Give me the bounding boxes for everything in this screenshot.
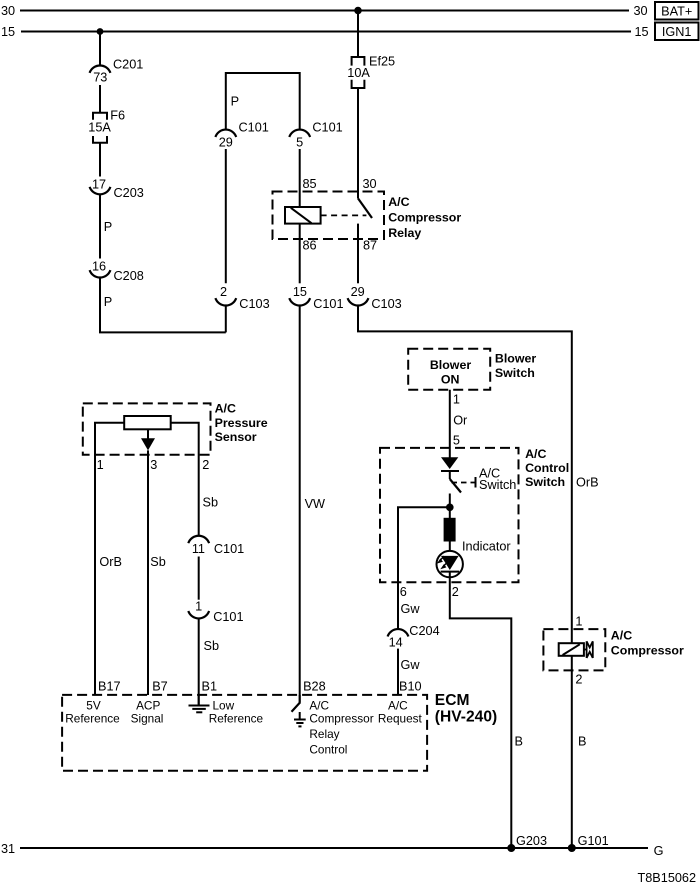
svg-text:A/C: A/C [309, 698, 329, 712]
svg-text:73: 73 [93, 71, 107, 85]
svg-text:Sensor: Sensor [215, 430, 257, 444]
ECM B28 driver switch blade [292, 695, 301, 712]
svg-text:87: 87 [363, 239, 377, 253]
fuse F6 15A [88, 109, 125, 143]
svg-text:VW: VW [305, 497, 325, 511]
wire labels OrB Sb Sb [99, 496, 218, 569]
svg-text:(HV-240): (HV-240) [435, 708, 497, 725]
ground node G101 [568, 834, 609, 852]
svg-text:Low: Low [213, 698, 235, 712]
svg-text:G203: G203 [516, 834, 547, 848]
svg-text:IGN1: IGN1 [662, 25, 692, 39]
bus 30 rail [1, 4, 648, 18]
connector C204 pin 14 [388, 624, 440, 649]
wire F6 to C203 [99, 143, 101, 177]
svg-text:Switch: Switch [495, 366, 535, 380]
bus 15 rail [1, 25, 649, 39]
svg-text:Sb: Sb [203, 496, 219, 510]
svg-text:5: 5 [296, 135, 303, 149]
indicator LED [437, 551, 463, 577]
svg-text:B10: B10 [399, 680, 422, 694]
wire C101-29 to C103-2 [225, 149, 227, 283]
compressor label [611, 629, 684, 658]
svg-text:Relay: Relay [388, 226, 421, 240]
compressor coil [559, 643, 584, 656]
wire Ef25 to relay switch pin 30 [358, 88, 377, 198]
svg-text:OrB: OrB [576, 476, 599, 490]
diode D1 [441, 457, 459, 471]
svg-text:30: 30 [1, 4, 15, 18]
svg-text:C101: C101 [214, 542, 244, 556]
svg-text:Relay: Relay [309, 727, 339, 741]
svg-text:Compressor: Compressor [309, 712, 373, 726]
relay switch blade [358, 198, 372, 218]
svg-text:Indicator: Indicator [462, 540, 511, 554]
wire blower to A/C control switch, pins 1 5, label Or [450, 390, 468, 458]
svg-text:15: 15 [1, 25, 15, 39]
sensor wiper arrow [141, 429, 155, 695]
svg-text:B28: B28 [303, 680, 326, 694]
svg-text:ON: ON [441, 373, 460, 387]
wire LED to pin 2 and over to ground leg [450, 572, 512, 848]
svg-text:29: 29 [219, 135, 233, 149]
A/C control switch label [525, 447, 569, 489]
svg-text:BAT+: BAT+ [661, 4, 692, 18]
junction node [446, 504, 454, 512]
wire C204 to ECM B10, label Gw [398, 649, 420, 695]
svg-text:Sb: Sb [204, 639, 220, 653]
svg-text:Switch: Switch [479, 478, 516, 492]
svg-text:P: P [104, 220, 112, 234]
connector C101 pin 5 [289, 121, 342, 150]
svg-text:Request: Request [378, 712, 423, 726]
svg-text:Ef25: Ef25 [369, 55, 395, 69]
connector C101 pin 11 [188, 536, 244, 556]
svg-text:2: 2 [220, 285, 227, 299]
connector C101 pin 1 [188, 599, 243, 624]
IGN1 box [655, 23, 699, 41]
svg-text:1: 1 [575, 615, 582, 629]
svg-text:B17: B17 [98, 680, 121, 694]
svg-text:29: 29 [351, 285, 365, 299]
wire compressor to G101, label B [572, 656, 587, 848]
svg-text:C101: C101 [312, 121, 342, 135]
svg-text:C208: C208 [114, 269, 144, 283]
svg-text:Or: Or [453, 414, 468, 428]
svg-text:17: 17 [92, 177, 106, 191]
ground at ECM B1 [189, 695, 210, 712]
sensor label [215, 402, 268, 445]
wire relay 87 to C103-29 [357, 224, 359, 284]
wire C208 down and right to node, label P [100, 278, 226, 333]
svg-text:OrB: OrB [99, 555, 122, 569]
svg-text:1: 1 [97, 458, 104, 472]
wire C101-1 to ECM B1, label Sb [199, 618, 219, 705]
branch wire to pin 6 [398, 507, 450, 582]
sensor pin numbers [97, 458, 210, 472]
svg-text:B7: B7 [152, 680, 168, 694]
wire diode to switch [449, 471, 451, 479]
svg-text:86: 86 [303, 239, 317, 253]
svg-text:C101: C101 [213, 610, 243, 624]
wire C103-29 right to OrB column [358, 306, 572, 644]
svg-text:16: 16 [92, 260, 106, 274]
wire C101-11 to C101-1 [198, 557, 200, 600]
svg-text:11: 11 [192, 542, 205, 556]
connector C208 pin 16 [90, 260, 144, 283]
svg-text:31: 31 [1, 842, 15, 856]
svg-text:Signal: Signal [131, 712, 164, 726]
svg-text:C201: C201 [113, 58, 143, 72]
wire bus15 to C201 [99, 32, 101, 66]
wire resistor to LED [449, 542, 451, 557]
svg-text:A/C: A/C [388, 195, 409, 209]
svg-text:Blower: Blower [430, 358, 471, 372]
junction on bus 15 [97, 28, 104, 35]
svg-text:ECM: ECM [435, 692, 470, 709]
svg-text:6: 6 [400, 585, 407, 599]
wire C101-15 down to ECM B28, label VW [300, 306, 325, 703]
svg-text:Pressure: Pressure [215, 416, 268, 430]
svg-text:A/C: A/C [388, 698, 408, 712]
svg-text:Switch: Switch [525, 475, 565, 489]
svg-text:B: B [578, 735, 586, 749]
relay U1 dashed box [273, 192, 385, 240]
svg-text:A/C: A/C [215, 402, 236, 416]
ground node G203 [507, 834, 547, 852]
svg-text:A/C: A/C [611, 629, 632, 643]
ECM pin B10 text [378, 698, 423, 725]
ECM pin names [98, 680, 422, 694]
relay dashed actuation link [321, 214, 367, 216]
blower switch dashed box [408, 349, 490, 390]
svg-text:C101: C101 [313, 297, 343, 311]
svg-text:1: 1 [453, 393, 460, 407]
connector C101 pin 29 [215, 121, 268, 150]
svg-text:G: G [654, 844, 664, 858]
ECM pin B17 text [65, 698, 120, 725]
A/C switch blade [450, 479, 461, 493]
A/C switch dashed link and label [452, 466, 517, 492]
svg-text:Compressor: Compressor [611, 644, 684, 658]
svg-text:F6: F6 [110, 109, 125, 123]
svg-text:T8B15062: T8B15062 [638, 871, 697, 885]
svg-text:85: 85 [303, 177, 317, 191]
svg-text:2: 2 [452, 585, 459, 599]
fuse Ef25 10A [347, 55, 395, 88]
svg-text:Sb: Sb [150, 555, 166, 569]
svg-text:C204: C204 [409, 624, 439, 638]
BAT+ box [655, 2, 699, 20]
svg-text:C101: C101 [239, 121, 269, 135]
bus 31 ground rail [1, 842, 663, 858]
wire C103-2 to corner node [225, 306, 227, 333]
svg-text:2: 2 [575, 673, 582, 687]
ECM pin B1 text [209, 698, 264, 725]
ECM pin B28 text [309, 698, 373, 756]
wire relay 86 to C101-15 [299, 224, 301, 284]
svg-text:Reference: Reference [65, 712, 120, 726]
sensor internal wires [95, 423, 124, 695]
relay label [388, 195, 461, 240]
svg-text:Control: Control [525, 461, 569, 475]
svg-text:B1: B1 [202, 680, 218, 694]
svg-text:10A: 10A [347, 66, 370, 80]
svg-text:C103: C103 [371, 297, 401, 311]
svg-text:Control: Control [309, 742, 347, 756]
compressor clutch symbol [584, 641, 593, 658]
relay pin labels [303, 177, 378, 252]
connector C203 pin 17 [90, 177, 144, 200]
svg-text:ACP: ACP [136, 698, 160, 712]
ECM pin B7 text [131, 698, 164, 725]
A/C pressure sensor dashed box [83, 403, 211, 454]
wire C101-5 to relay coil [299, 149, 301, 207]
connector C103 pin 29 [348, 285, 402, 311]
wire blade to junction [449, 494, 451, 519]
svg-text:5V: 5V [86, 698, 101, 712]
svg-text:2: 2 [202, 458, 209, 472]
svg-text:P: P [231, 95, 239, 109]
svg-text:G101: G101 [578, 834, 609, 848]
wire C203 to C208, label P [100, 194, 112, 258]
wire bus30 to fuse Ef25 [357, 11, 359, 58]
svg-text:Reference: Reference [209, 712, 264, 726]
blower switch state text [430, 358, 471, 387]
svg-text:3: 3 [150, 458, 157, 472]
svg-text:B: B [515, 735, 523, 749]
A/C compressor dashed box [543, 629, 605, 670]
connector C103 pin 2 [215, 285, 269, 311]
svg-text:14: 14 [389, 635, 403, 649]
svg-text:Gw: Gw [401, 602, 421, 616]
svg-text:Blower: Blower [495, 352, 536, 366]
ground at ECM B28 [294, 712, 306, 726]
svg-text:15: 15 [293, 285, 307, 299]
svg-text:15: 15 [635, 25, 649, 39]
connector C101 pin 15 [289, 285, 343, 311]
wire top link between C101 columns [226, 73, 300, 130]
svg-text:30: 30 [363, 177, 377, 191]
A/C control switch dashed box [380, 448, 519, 582]
connector C201 pin 73 [90, 58, 144, 85]
svg-text:30: 30 [634, 4, 648, 18]
wire C201 to F6 [99, 85, 101, 113]
svg-text:P: P [104, 295, 112, 309]
svg-text:C203: C203 [114, 186, 144, 200]
svg-text:5: 5 [453, 434, 460, 448]
svg-text:A/C: A/C [525, 447, 546, 461]
pressure sensor resistor [124, 416, 171, 429]
svg-text:Gw: Gw [401, 658, 421, 672]
ECM title [435, 692, 497, 726]
svg-text:15A: 15A [88, 120, 111, 134]
relay coil [285, 207, 321, 224]
blower switch label [495, 352, 536, 381]
svg-text:C103: C103 [239, 297, 269, 311]
wire pin6 to C204, label Gw [398, 582, 420, 629]
ECM dashed box [62, 695, 427, 771]
junction on bus 30 [354, 7, 362, 15]
svg-text:Compressor: Compressor [388, 211, 461, 225]
svg-text:1: 1 [195, 599, 202, 613]
indicator resistor (filled) [444, 518, 456, 542]
pin labels 6 and 2 [400, 585, 459, 599]
